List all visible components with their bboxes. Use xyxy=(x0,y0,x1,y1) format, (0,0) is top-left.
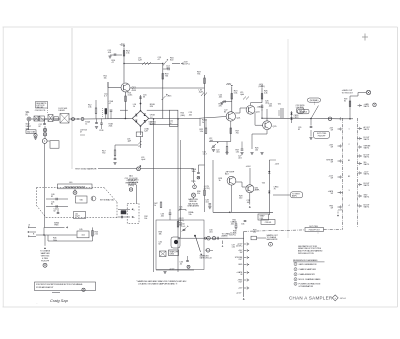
svg-text:CR36: CR36 xyxy=(170,254,174,256)
transformer box T40 xyxy=(76,196,88,203)
page sheet bottom edge xyxy=(3,306,398,308)
resistor R17 xyxy=(102,150,116,156)
capacitor C12D xyxy=(99,118,104,132)
connector stub ext 2 xyxy=(28,231,36,236)
svg-text:.001: .001 xyxy=(81,234,85,236)
inductor L25 xyxy=(240,92,249,100)
transistor Q36 dark xyxy=(171,237,180,248)
label C21 R21 xyxy=(149,122,157,126)
arrow down strobe xyxy=(249,193,251,208)
svg-text:1W: 1W xyxy=(331,178,334,180)
svg-text:3: 3 xyxy=(349,190,350,192)
svg-text:1W: 1W xyxy=(331,130,334,132)
svg-text:+8.6V: +8.6V xyxy=(246,166,252,168)
wire Q13 out xyxy=(130,87,205,89)
test point TP25 xyxy=(191,181,196,189)
ground C21 xyxy=(212,150,215,152)
wire Q30 emitter xyxy=(231,185,233,212)
label R46 xyxy=(53,238,57,242)
wire base Q13 xyxy=(108,87,121,89)
wire pickoff to transformer xyxy=(136,185,138,203)
wire bridge right xyxy=(149,88,163,119)
svg-text:(DCPL): (DCPL) xyxy=(204,188,210,190)
wire gate bus right xyxy=(304,118,340,120)
wire Q25 base xyxy=(255,113,263,126)
inductor L19 xyxy=(199,90,208,97)
transistor Q35 xyxy=(246,185,261,193)
capacitor C41 xyxy=(46,202,68,208)
wire coax right stub xyxy=(210,249,213,251)
transistor Q40 xyxy=(91,196,96,201)
svg-text:.001: .001 xyxy=(205,202,208,204)
resistor R39 xyxy=(344,96,351,119)
capacitor C12E xyxy=(109,100,114,128)
coax circle 1 xyxy=(212,237,223,247)
label R11 xyxy=(104,76,108,80)
wire vertical x204 lower xyxy=(204,140,206,212)
svg-text:1µH: 1µH xyxy=(138,60,142,62)
resistor R30A xyxy=(197,190,205,196)
label -12.2V dcpl2 xyxy=(204,186,210,190)
svg-text:1: 1 xyxy=(349,128,350,130)
stamp circle xyxy=(82,288,85,291)
svg-text:1W: 1W xyxy=(331,193,334,195)
svg-text:.001: .001 xyxy=(189,114,193,116)
wire bus segment2 xyxy=(69,118,81,119)
wire bus segment3 xyxy=(84,118,132,121)
page sheet top edge xyxy=(3,26,398,28)
svg-text:& TERMINATOR: & TERMINATOR xyxy=(299,285,314,288)
diode CR15 xyxy=(162,94,173,100)
svg-text:REFERENCE DIAGRAMS: REFERENCE DIAGRAMS xyxy=(293,259,318,262)
arrow out 1 xyxy=(118,208,136,211)
svg-text:.1µH: .1µH xyxy=(209,140,214,142)
svg-text:GATE GENERATOR: GATE GENERATOR xyxy=(299,263,318,266)
wire pickoff down xyxy=(44,143,46,227)
svg-text:1: 1 xyxy=(295,264,296,266)
dash-dot rail xyxy=(244,230,305,231)
label J10 SIG IN xyxy=(26,112,32,131)
wire input bus xyxy=(31,118,58,120)
wire Q30 to Q35 xyxy=(236,182,246,187)
svg-text:2: 2 xyxy=(349,144,350,146)
wire vertical aux xyxy=(180,140,182,238)
power +50V DCPL xyxy=(259,84,266,103)
trimmer C34 xyxy=(181,224,189,232)
svg-text:SAMPLER: SAMPLER xyxy=(41,252,51,255)
svg-text:1k: 1k xyxy=(154,205,156,207)
svg-text:(NORM A): (NORM A) xyxy=(128,183,137,186)
svg-text:(SEL): (SEL) xyxy=(181,115,186,117)
svg-text:VIA P11: VIA P11 xyxy=(364,173,370,176)
capacitor C40 xyxy=(46,194,68,201)
svg-text:TEST SIG AT SAMPLER: TEST SIG AT SAMPLER xyxy=(75,167,97,170)
svg-text:82: 82 xyxy=(51,196,53,198)
svg-text:.02: .02 xyxy=(180,264,183,266)
labels below strobe bus xyxy=(233,220,247,226)
interconnect plug right spine xyxy=(357,118,359,227)
wire block bottom xyxy=(156,269,194,271)
resistor R19 xyxy=(197,72,205,141)
wire bridge out upper xyxy=(147,109,170,111)
stamp box xyxy=(35,282,96,291)
label gate out xyxy=(342,89,354,95)
svg-text:M.U.B. CHANNEL MARS: M.U.B. CHANNEL MARS xyxy=(299,278,322,281)
svg-text:CHAN A MEM: CHAN A MEM xyxy=(187,205,199,208)
transistor Q25 xyxy=(263,121,278,130)
delay line box DL11 xyxy=(60,114,69,124)
resistor bottom R27b xyxy=(225,142,240,155)
feedthrough capacitor C11 xyxy=(72,118,75,121)
rounded box b xyxy=(298,109,310,114)
capacitor C38b xyxy=(231,221,238,229)
svg-text:1.5k: 1.5k xyxy=(88,107,91,109)
attenuator box A10b xyxy=(39,116,44,121)
wire return loop xyxy=(48,235,93,241)
svg-text:.6µH: .6µH xyxy=(199,92,204,94)
page sheet left edge xyxy=(2,27,4,307)
rounded box normal xyxy=(308,98,321,102)
wire collector drop xyxy=(162,63,163,88)
svg-text:5: 5 xyxy=(295,284,296,286)
svg-text:1k: 1k xyxy=(202,122,204,124)
svg-text:1k: 1k xyxy=(85,123,87,125)
test point TP10 xyxy=(34,133,37,139)
capacitor C15 xyxy=(158,57,169,66)
svg-text:.001: .001 xyxy=(209,232,213,234)
svg-text:VIA P11: VIA P11 xyxy=(364,147,370,150)
strobe ground symbol xyxy=(191,193,195,199)
svg-text:C38 .001: C38 .001 xyxy=(265,222,272,224)
label near pickoff xyxy=(80,130,87,135)
legend items xyxy=(294,263,321,289)
resistor R32b xyxy=(154,202,162,208)
svg-text:PICKOFF: PICKOFF xyxy=(41,261,50,263)
crystal stack D10 xyxy=(43,126,46,136)
svg-text:2.2k: 2.2k xyxy=(95,234,98,236)
wire to chan B arrow xyxy=(44,235,46,249)
svg-text:+50V: +50V xyxy=(275,164,280,166)
svg-text:(DCPL): (DCPL) xyxy=(183,64,190,66)
paper fold crease left xyxy=(71,28,73,169)
transistor Q30 xyxy=(219,176,236,185)
wire bridge bottom xyxy=(140,126,142,135)
svg-text:4: 4 xyxy=(349,205,350,207)
wire emitter row xyxy=(209,138,231,142)
test point TP36 xyxy=(187,265,190,268)
label +24V DCPL xyxy=(183,62,190,66)
resistor R27 xyxy=(230,128,240,135)
label R14 xyxy=(112,60,116,64)
svg-text:SCOPE AND READOUT: SCOPE AND READOUT xyxy=(36,286,53,289)
bracket C33 xyxy=(179,210,186,212)
label L19b xyxy=(141,157,146,161)
power +8.6V xyxy=(246,166,252,185)
svg-text:ADJ: ADJ xyxy=(225,173,229,176)
svg-text:.6µH: .6µH xyxy=(240,94,245,96)
wire bus into bridge xyxy=(120,92,128,119)
svg-text:16k: 16k xyxy=(144,218,147,220)
svg-text:B1: B1 xyxy=(348,160,350,162)
transistor Q13 xyxy=(121,83,137,92)
signature craig xyxy=(50,298,69,303)
label -12.2 block xyxy=(169,268,175,270)
rounded box to delay line xyxy=(273,192,303,198)
interconnect plug left spine xyxy=(342,118,344,229)
resistor R22 left xyxy=(200,119,207,134)
resistor R23 xyxy=(231,91,238,100)
svg-text:NORM A: NORM A xyxy=(300,111,308,114)
input connector J10 xyxy=(27,117,31,121)
signature mark xyxy=(37,302,38,305)
wire bus segment xyxy=(55,118,60,120)
variable capacitor C21 xyxy=(203,142,219,156)
svg-text:GATE CR31-34: GATE CR31-34 xyxy=(200,256,212,259)
paper fold crease right xyxy=(287,39,289,238)
capacitor C42 xyxy=(54,208,60,214)
label to chan B sampler xyxy=(40,249,51,262)
svg-text:VIA P11: VIA P11 xyxy=(364,138,370,141)
feedthrough capacitor C12 xyxy=(81,118,84,121)
label trig sel xyxy=(300,105,305,109)
ground symbol chan B xyxy=(43,263,47,267)
capacitor C27 xyxy=(238,142,244,160)
test jack circle xyxy=(328,117,331,120)
svg-text:GND: GND xyxy=(238,264,243,266)
resistor R15 xyxy=(125,93,134,102)
svg-text:82: 82 xyxy=(224,112,226,114)
labels R29 C29 xyxy=(239,195,251,204)
wire -12 row xyxy=(220,237,228,239)
label SEL xyxy=(181,112,193,117)
inductor L18 xyxy=(127,137,142,149)
coax output 2 xyxy=(206,249,210,253)
inductor L15 xyxy=(138,58,151,66)
block outline sampler xyxy=(156,220,204,270)
note block calibration xyxy=(125,175,138,187)
rounded box gate xyxy=(297,108,305,113)
svg-text:MEM VIA P38: MEM VIA P38 xyxy=(267,238,278,241)
svg-text:CHAN A MEMORY: CHAN A MEMORY xyxy=(299,273,316,276)
transistor Q21 xyxy=(226,112,241,121)
ground Q25 emitter xyxy=(250,130,267,155)
plug pins left xyxy=(326,128,342,210)
switch blade xyxy=(311,102,319,119)
svg-text:VIA P11: VIA P11 xyxy=(364,206,370,209)
plug pins right xyxy=(358,103,377,209)
svg-text:1.5 100k: 1.5 100k xyxy=(149,124,157,126)
legend heading xyxy=(293,259,325,262)
wire switch down xyxy=(298,119,312,132)
svg-text:PICKOFF: PICKOFF xyxy=(318,135,326,137)
bridge labels right xyxy=(150,104,156,126)
text block sampling bridge xyxy=(187,198,199,208)
svg-text:1.3k: 1.3k xyxy=(232,246,235,248)
gate out circle xyxy=(366,90,370,94)
svg-text:B2: B2 xyxy=(348,176,350,178)
title chan a sampler xyxy=(289,295,347,301)
svg-text:INT SIGNAL VIA: INT SIGNAL VIA xyxy=(100,198,114,201)
wire Q21 emitter xyxy=(230,121,232,141)
svg-text:.001: .001 xyxy=(231,224,234,226)
svg-text:VIA P11: VIA P11 xyxy=(364,128,370,131)
svg-text:1W: 1W xyxy=(331,208,334,210)
svg-text:PICKOFF OUT: PICKOFF OUT xyxy=(309,230,321,232)
page sheet right edge xyxy=(396,27,398,307)
labels -12V rail left xyxy=(179,207,194,217)
registration cross mark xyxy=(362,34,368,41)
small box R38b xyxy=(251,236,257,240)
svg-text:CHAN A SAMPLER: CHAN A SAMPLER xyxy=(289,296,333,301)
svg-text:VALUES: VALUES xyxy=(36,106,44,109)
svg-text:VIA P11: VIA P11 xyxy=(364,105,370,108)
wire strobe bus xyxy=(213,160,273,213)
capacitor C18 xyxy=(113,156,116,165)
wire gate row xyxy=(261,105,304,119)
svg-text:CHAN B SAMPLER: CHAN B SAMPLER xyxy=(299,268,317,271)
pickoff dashed box xyxy=(121,203,139,223)
resistor R45 xyxy=(92,227,99,241)
label HF step xyxy=(225,171,235,175)
resistor R12 xyxy=(88,100,97,118)
resistor R36 xyxy=(177,222,183,228)
label R32c xyxy=(144,216,147,220)
labels bottom row xyxy=(209,230,257,235)
capacitor C12c xyxy=(39,119,46,128)
dashed enclosure trigger pickoff xyxy=(37,188,118,219)
diagonal sampling gate xyxy=(196,237,203,256)
resistor R18A xyxy=(162,74,169,80)
wire vertical feedback right xyxy=(177,118,178,272)
connector J38 pins xyxy=(235,243,249,290)
wire trig row xyxy=(36,227,77,235)
svg-text:2: 2 xyxy=(295,269,296,271)
svg-text:C10 R10 C11: C10 R10 C11 xyxy=(35,110,46,112)
resistor R30B xyxy=(192,165,205,179)
svg-text:50Ω COAX: 50Ω COAX xyxy=(27,131,36,134)
label C11b xyxy=(104,94,108,98)
box R38c xyxy=(261,220,275,225)
svg-text:.1µH: .1µH xyxy=(127,141,132,143)
svg-text:3: 3 xyxy=(295,274,296,276)
svg-text:VIA P11: VIA P11 xyxy=(364,196,370,199)
wire vertical feedback left xyxy=(153,118,154,272)
snap-off label box xyxy=(169,250,179,256)
ground block xyxy=(163,272,166,274)
svg-text:467-04: 467-04 xyxy=(340,298,347,300)
svg-text:82: 82 xyxy=(344,101,346,103)
capacitor C17 xyxy=(136,128,149,137)
resistor R16 xyxy=(170,58,183,65)
svg-text:DLY'D TRIG: DLY'D TRIG xyxy=(309,226,318,228)
connector J38 bottom xyxy=(236,292,245,299)
power +50V feed xyxy=(120,44,126,84)
wire input to base xyxy=(107,82,109,119)
ground rail marks xyxy=(216,109,264,155)
resistor R26 xyxy=(261,91,268,100)
svg-text:1W: 1W xyxy=(331,147,334,149)
svg-text:(DCPL): (DCPL) xyxy=(230,234,237,236)
component small box xyxy=(45,117,58,121)
int signal label xyxy=(100,198,114,201)
svg-text:82: 82 xyxy=(39,126,41,128)
wire collector node xyxy=(123,63,163,64)
svg-text:47: 47 xyxy=(80,132,82,134)
power +50V Q21 xyxy=(226,84,233,112)
connector stub ext 1 xyxy=(28,223,36,228)
test point sample out xyxy=(269,242,273,246)
box L21 xyxy=(169,110,178,126)
note text sampling xyxy=(136,280,186,286)
label sampling gate xyxy=(200,254,212,259)
svg-text:+50V: +50V xyxy=(226,84,232,86)
dash-dot rail 2 xyxy=(324,228,343,230)
labels R33 C32 xyxy=(159,232,163,246)
wire gate out xyxy=(350,93,366,97)
svg-text:.6µH: .6µH xyxy=(141,159,146,161)
svg-text:(DCPL): (DCPL) xyxy=(236,245,242,247)
bridge labels left xyxy=(133,104,137,108)
stamp underline xyxy=(52,291,60,293)
sampling bridge diodes CR16-CR19 xyxy=(132,110,148,127)
resistor R13 xyxy=(123,51,130,57)
power +50V stack xyxy=(269,160,279,166)
plug bottom labels xyxy=(337,210,343,217)
test point TP16 xyxy=(137,167,141,171)
capacitor C24 xyxy=(219,95,232,105)
svg-text:1W: 1W xyxy=(239,252,242,254)
svg-text:TRIG: TRIG xyxy=(54,224,59,226)
wire bridge top xyxy=(139,95,147,111)
svg-text:TO CHAN B: TO CHAN B xyxy=(40,249,51,252)
wire base bus to Q21 xyxy=(163,117,227,119)
svg-text:82: 82 xyxy=(51,204,53,206)
wire Q24 collector xyxy=(251,103,263,106)
box L41 xyxy=(74,212,86,219)
svg-text:4.7: 4.7 xyxy=(109,103,111,105)
junction gate bus xyxy=(340,117,353,120)
resistor R12B xyxy=(103,108,107,118)
svg-text:VIA P11: VIA P11 xyxy=(364,184,370,187)
box dly trig xyxy=(305,226,324,234)
test signal wire xyxy=(75,167,194,183)
svg-text:TO TRIG CKT: TO TRIG CKT xyxy=(342,92,354,94)
svg-text:4: 4 xyxy=(295,279,296,281)
svg-text:1W: 1W xyxy=(331,162,334,164)
wire left branch xyxy=(115,145,139,150)
legend paragraph xyxy=(298,245,323,255)
note text right of pickoff xyxy=(128,180,139,187)
svg-text:A MEM: A MEM xyxy=(222,234,228,237)
label -12.2V xyxy=(178,218,185,222)
svg-text:FOR CIRCUIT DESCRIPTION REFER: FOR CIRCUIT DESCRIPTION REFER SECTION 3 … xyxy=(36,283,83,286)
svg-text:VIA P11: VIA P11 xyxy=(364,156,370,159)
resistor R21A xyxy=(200,119,207,127)
capacitor C12B xyxy=(85,118,98,128)
wire memory gate row xyxy=(178,237,244,239)
svg-text:82: 82 xyxy=(298,129,300,131)
svg-text:VIA P11: VIA P11 xyxy=(364,163,370,166)
label sample out xyxy=(267,234,279,241)
test point TP40 xyxy=(73,189,77,195)
arrow out 2 xyxy=(118,216,135,219)
ground switch xyxy=(309,130,312,140)
junction dot strobe xyxy=(194,235,196,237)
svg-text:22µH: 22µH xyxy=(75,215,80,217)
label to chan a xyxy=(222,232,231,237)
label -12.2V dcpl xyxy=(230,232,237,236)
svg-text:CR29: CR29 xyxy=(294,117,299,119)
